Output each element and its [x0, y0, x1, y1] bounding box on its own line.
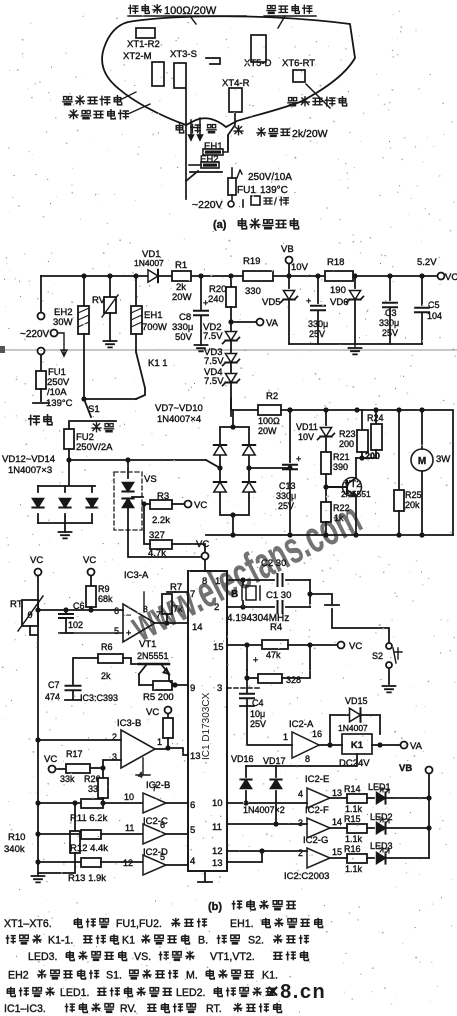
svg-text:RT: RT: [10, 599, 23, 610]
relay coil K1 DC24V: [342, 734, 372, 754]
legend line 5: [7, 987, 15, 997]
svg-text:25V: 25V: [382, 328, 398, 338]
svg-text:S2.: S2.: [248, 935, 264, 947]
wire colour label blue: [234, 126, 243, 135]
svg-text:×8.cn: ×8.cn: [267, 981, 326, 1003]
svg-text:3: 3: [298, 818, 303, 828]
wire: rail left drop to L terminal: [40, 276, 42, 312]
svg-text:VA: VA: [266, 318, 279, 329]
resistor R25 20: [398, 410, 400, 490]
svg-text:VS.: VS.: [134, 951, 151, 963]
motor M 3W: [411, 449, 433, 471]
svg-text:R19: R19: [243, 256, 260, 267]
diode VD14: [91, 486, 93, 523]
svg-text:C3: C3: [385, 308, 397, 318]
svg-text:11: 11: [125, 823, 134, 833]
svg-text:1N4007×2: 1N4007×2: [243, 805, 285, 815]
wire: motor block bottom rail: [206, 534, 453, 536]
svg-text:25V: 25V: [309, 329, 325, 339]
capacitor C4 10u 25V: [244, 675, 249, 680]
legend line 2: [6, 935, 16, 944]
svg-text:200: 200: [365, 451, 380, 461]
svg-text:3: 3: [217, 683, 222, 694]
wire: AC node to diode bus: [66, 457, 71, 462]
svg-text:XT1–XT6.: XT1–XT6.: [4, 918, 52, 930]
section (b) mid: rectifier, triac, motor drive: [2, 391, 453, 559]
svg-text:10: 10: [212, 798, 223, 809]
svg-text:C1 30: C1 30: [266, 590, 291, 601]
wire: pin5 input: [66, 632, 123, 634]
svg-text:K1: K1: [351, 740, 364, 751]
svg-text:RT.: RT.: [206, 1003, 222, 1015]
svg-text:474: 474: [45, 692, 60, 702]
svg-text:IC3-B: IC3-B: [117, 718, 141, 729]
svg-text:7: 7: [152, 783, 157, 793]
terminal VC above IC3-B: [165, 707, 172, 714]
capacitor C3 330u 25V: [389, 276, 391, 300]
wire: IC3-A output to pin14: [155, 622, 188, 624]
diode VD12: [37, 486, 39, 523]
wire: S1 pole: [84, 398, 136, 400]
svg-text:(b): (b): [208, 901, 222, 913]
svg-text:139°C: 139°C: [46, 398, 73, 409]
svg-text:190: 190: [330, 285, 346, 296]
svg-text:VC: VC: [146, 707, 159, 718]
IC IC1 D17300X: [188, 571, 227, 871]
svg-text:250V/10A: 250V/10A: [248, 172, 292, 183]
svg-text:(a): (a): [213, 219, 227, 231]
svg-text:1N4007×4: 1N4007×4: [157, 414, 201, 425]
svg-text:2k: 2k: [101, 671, 111, 681]
svg-text:5: 5: [114, 626, 119, 636]
svg-text:EH2: EH2: [200, 154, 218, 165]
section (b) control circuit : power input and rails: [0, 244, 457, 460]
section (a) kettle wiring diagram: [63, 5, 355, 231]
svg-text:VD16: VD16: [231, 754, 254, 764]
svg-text:6: 6: [114, 606, 119, 616]
svg-text:330: 330: [245, 286, 261, 297]
svg-text:XT6-RT: XT6-RT: [282, 58, 315, 69]
svg-text:EH1: EH1: [144, 310, 162, 321]
svg-text:K1-1.: K1-1.: [48, 935, 73, 947]
terminal VC above IC1: [202, 553, 209, 560]
wire yellow: [198, 118, 203, 140]
resistor R13 1.9k: [81, 858, 101, 867]
svg-text:1N4007×3: 1N4007×3: [8, 465, 52, 476]
svg-text:340k: 340k: [4, 844, 25, 855]
svg-text:10μ: 10μ: [250, 709, 265, 719]
svg-text:R21: R21: [333, 452, 350, 462]
svg-text:6: 6: [190, 800, 195, 811]
svg-text:VD17: VD17: [263, 756, 286, 766]
wire: motor block top rail: [281, 410, 453, 535]
svg-text:VC: VC: [349, 641, 362, 652]
wire: bridge top feed / bottom out: [232, 410, 234, 535]
svg-text:R13 1.9k: R13 1.9k: [68, 873, 106, 884]
bridge diode VD8: [243, 445, 255, 455]
svg-text:C13: C13: [279, 481, 296, 491]
svg-text:10V: 10V: [298, 432, 314, 442]
svg-text:100Ω/20W: 100Ω/20W: [164, 5, 217, 17]
svg-text:13: 13: [190, 751, 201, 762]
resistor R12 4.4k: [81, 830, 101, 839]
svg-text:R10: R10: [8, 832, 25, 843]
svg-text:RV.: RV.: [120, 1003, 137, 1015]
wire to FU2: [69, 421, 116, 429]
capacitor C13 330u 25V: [249, 467, 290, 469]
svg-text:10: 10: [124, 792, 134, 802]
svg-text:33k: 33k: [60, 774, 75, 784]
wire: diode cathode bus to ground: [38, 523, 92, 532]
terminal VC left 1: [35, 569, 42, 576]
svg-text:104: 104: [427, 311, 442, 321]
svg-text:250V/2A: 250V/2A: [76, 442, 113, 453]
wire: main +rail: [41, 275, 441, 277]
svg-text:R11 6.2k: R11 6.2k: [70, 813, 108, 824]
ground lower left: [37, 740, 39, 873]
triac VS: [114, 472, 142, 530]
svg-text:2N5551: 2N5551: [137, 651, 169, 661]
svg-text:~220V: ~220V: [20, 329, 50, 340]
label: resistor 100ohm/20W connection: [129, 5, 138, 13]
arrow 250V/10A pointer: [237, 170, 242, 178]
svg-text:M: M: [418, 456, 426, 467]
svg-text:10V: 10V: [291, 262, 309, 273]
svg-text:C7: C7: [48, 680, 60, 690]
svg-text:LED1: LED1: [368, 782, 391, 792]
label: display board connection: [267, 5, 276, 13]
capacitor C1: [227, 606, 274, 608]
scan artifact left edge: [0, 346, 5, 353]
svg-text:VT1,VT2.: VT1,VT2.: [210, 951, 255, 963]
wire EH1 right lead: [223, 135, 228, 152]
terminal VC (triac gate): [185, 501, 192, 508]
svg-text:25V: 25V: [250, 719, 266, 729]
svg-text:R14: R14: [344, 784, 361, 794]
svg-text:R17: R17: [66, 749, 83, 759]
svg-text:30W: 30W: [53, 317, 73, 328]
svg-text:IC3:C393: IC3:C393: [80, 693, 118, 703]
svg-text:IC2:C2003: IC2:C2003: [284, 871, 329, 882]
svg-text:K1: K1: [122, 935, 135, 947]
svg-text:IC2-A: IC2-A: [289, 719, 314, 730]
svg-text:B.: B.: [198, 935, 208, 947]
section (b) lower: MCU IC1, comparators, drivers: [4, 539, 339, 884]
svg-text:1N4007: 1N4007: [134, 258, 164, 268]
svg-text:68k: 68k: [98, 594, 113, 604]
connector clip: [206, 58, 220, 64]
svg-text:R12 4.4k: R12 4.4k: [70, 843, 108, 854]
fuse FU2 250V/2A: [64, 429, 74, 449]
svg-text:7.5V: 7.5V: [203, 331, 223, 342]
svg-text:XT5-D: XT5-D: [244, 58, 272, 69]
label: kettle handle connection: [63, 97, 72, 105]
svg-text:VB: VB: [399, 763, 412, 774]
fuse FU1 (a): [228, 178, 236, 195]
svg-text:R6: R6: [101, 642, 113, 652]
svg-text:VA: VA: [410, 741, 423, 752]
terminal XT1: [136, 28, 155, 38]
wire to 220V left terminal: [185, 181, 187, 199]
resistor R21 390: [321, 452, 331, 474]
svg-text:VS: VS: [144, 474, 157, 485]
terminal VA right: [401, 742, 408, 749]
svg-text:5: 5: [160, 852, 165, 862]
svg-text:7.5V: 7.5V: [204, 376, 224, 387]
resistor R22 1k: [325, 487, 327, 502]
svg-text:5.2V: 5.2V: [417, 257, 437, 268]
svg-text:~220V: ~220V: [192, 199, 223, 211]
svg-text:VD15: VD15: [345, 696, 368, 706]
svg-text:S1.: S1.: [106, 970, 122, 982]
terminal XT4: [229, 88, 242, 112]
svg-text:11: 11: [212, 822, 222, 833]
kettle base outline: [102, 16, 355, 127]
watermark www.elecfans.com: [122, 492, 369, 652]
svg-text:13: 13: [332, 788, 342, 798]
svg-text:VC: VC: [196, 539, 209, 550]
wire colour labels red black yellow: [176, 124, 183, 133]
svg-text:EH1.: EH1.: [230, 918, 254, 930]
capacitor C8 330u 50V: [200, 276, 202, 309]
svg-text:VC: VC: [445, 272, 457, 283]
svg-text:1.1k: 1.1k: [345, 834, 363, 844]
svg-text:1.1k: 1.1k: [345, 864, 363, 874]
svg-text:9: 9: [190, 683, 195, 694]
svg-text:K1 1: K1 1: [148, 358, 168, 369]
resistor R24 200: [375, 410, 377, 424]
svg-text:50V: 50V: [175, 332, 193, 343]
svg-text:VB: VB: [281, 244, 294, 255]
svg-text:+: +: [253, 655, 258, 665]
wire: VS bottom: [128, 530, 205, 557]
svg-text:VC: VC: [44, 754, 57, 765]
wire black: [189, 120, 194, 140]
svg-text:VD11: VD11: [296, 422, 318, 432]
resistor R26 33k: [102, 768, 104, 778]
terminal XT6: [293, 70, 305, 82]
resistor R11 6.2k: [81, 799, 103, 808]
svg-text:VC: VC: [194, 500, 207, 511]
wire: IC1 bottom stub: [198, 871, 212, 882]
svg-text:+: +: [306, 296, 311, 306]
svg-text:FU1: FU1: [237, 185, 256, 196]
svg-text:XT4-R: XT4-R: [222, 78, 250, 89]
thermostat lever: [186, 171, 222, 181]
svg-text:R2: R2: [266, 391, 278, 402]
svg-text:1.1k: 1.1k: [345, 804, 363, 814]
capacitor C5 104: [421, 276, 423, 305]
svg-text:R5 200: R5 200: [143, 692, 174, 703]
svg-text:8: 8: [305, 754, 310, 764]
svg-text:13: 13: [212, 858, 223, 869]
svg-text:1N4007: 1N4007: [338, 723, 368, 733]
earth yellow/green box: [251, 196, 260, 205]
svg-text:4: 4: [298, 789, 303, 799]
svg-text:VD7~VD10: VD7~VD10: [155, 403, 203, 414]
svg-text:200: 200: [339, 439, 354, 449]
svg-text:C5: C5: [428, 300, 440, 310]
terminal VA: [231, 321, 256, 323]
svg-text:IC3-A: IC3-A: [124, 570, 149, 581]
svg-text:390: 390: [333, 462, 348, 472]
wire: pin3 dashed stub: [227, 687, 262, 689]
svg-text:+: +: [296, 454, 301, 464]
bridge diode VD9: [214, 482, 226, 492]
label: resistor 2k/20W connection: [257, 128, 265, 136]
svg-text:XT1-R2: XT1-R2: [127, 39, 160, 50]
svg-text:R24: R24: [367, 413, 384, 423]
terminal: AC N: [51, 330, 58, 337]
svg-text:2: 2: [298, 848, 303, 858]
wire bus pin6 row: [35, 800, 40, 805]
svg-text:/10A: /10A: [47, 387, 67, 398]
wire VT1 collector: [169, 681, 175, 685]
svg-text:330μ: 330μ: [276, 491, 296, 501]
terminal XT2: [152, 62, 164, 86]
svg-text:6: 6: [160, 820, 165, 830]
svg-text:XT2-M: XT2-M: [123, 51, 152, 62]
svg-text:K1.: K1.: [262, 970, 278, 982]
svg-text:2k/20W: 2k/20W: [292, 128, 328, 140]
svg-text:VD12~VD14: VD12~VD14: [2, 454, 55, 465]
svg-text:R16: R16: [344, 844, 361, 854]
svg-text:IC2-E: IC2-E: [305, 774, 329, 785]
svg-text:R25: R25: [405, 490, 422, 500]
svg-text:4: 4: [190, 856, 195, 867]
svg-text:R15: R15: [344, 814, 361, 824]
section (b) right: relay, push-button, LED drivers: [227, 609, 433, 882]
capacitor C4 small: [246, 645, 248, 670]
svg-text:328: 328: [286, 675, 301, 685]
svg-text:VD5: VD5: [262, 297, 280, 308]
svg-text:R1: R1: [175, 260, 187, 271]
label water-out: [92, 423, 101, 432]
svg-text:IC1 D17303CX: IC1 D17303CX: [201, 692, 212, 760]
svg-text:2.2k: 2.2k: [152, 515, 170, 526]
wire: crystal common to S2: [332, 609, 389, 642]
svg-text:12: 12: [123, 858, 133, 868]
svg-text:330μ: 330μ: [379, 318, 399, 328]
resistor 328: [247, 670, 258, 678]
terminal: AC via fuse: [38, 348, 45, 355]
wire bus pin4 row: [35, 859, 40, 864]
svg-text:1: 1: [283, 732, 288, 742]
wire: pin2 input from RT divider: [38, 739, 121, 741]
svg-text:S1: S1: [88, 404, 100, 415]
svg-text:20k: 20k: [405, 500, 420, 510]
svg-text:+: +: [126, 628, 131, 638]
svg-text:15: 15: [213, 642, 224, 653]
wire: AC line to bridge: [69, 459, 206, 461]
svg-text:240: 240: [208, 294, 224, 305]
svg-text:LED3.: LED3.: [28, 951, 57, 963]
svg-text:XT3-S: XT3-S: [170, 49, 197, 60]
fuse FU1: [36, 371, 46, 389]
wire from XT3 to heater: [185, 89, 187, 180]
wire: bridge AC feed: [206, 460, 220, 468]
svg-text:VC: VC: [83, 555, 96, 566]
svg-text:47k: 47k: [266, 650, 281, 660]
bridge diode VD7: [214, 445, 226, 455]
svg-text:IC2-G: IC2-G: [303, 835, 328, 846]
svg-text:7.5V: 7.5V: [204, 356, 224, 367]
svg-text:EH1: EH1: [204, 141, 222, 152]
scan fold line: [0, 349, 457, 351]
wire: clamp bus: [246, 754, 357, 766]
svg-text:102: 102: [68, 620, 83, 630]
svg-text:20W: 20W: [258, 426, 277, 436]
svg-text:LED1.: LED1.: [60, 987, 89, 999]
svg-text:VC: VC: [30, 555, 43, 566]
svg-text:5: 5: [190, 825, 195, 836]
svg-text:IC2-F: IC2-F: [305, 805, 329, 816]
switch S1 blade: [84, 399, 91, 417]
svg-text:25V: 25V: [278, 501, 294, 511]
resistor pull-up on IC3-B output: [163, 718, 173, 738]
svg-text:FU1,FU2.: FU1,FU2.: [116, 918, 162, 930]
label: water outlet switch connection: [69, 110, 78, 119]
svg-text:EH2: EH2: [8, 970, 29, 982]
bridge diode VD10: [243, 482, 255, 492]
svg-text:16: 16: [312, 729, 322, 739]
svg-text:330μ: 330μ: [308, 319, 328, 329]
label keep-warm: [29, 415, 40, 424]
svg-text:M.: M.: [186, 970, 198, 982]
svg-text:IC2-B: IC2-B: [146, 780, 170, 791]
svg-text:1: 1: [157, 737, 162, 747]
switch S1 fixed contact: [33, 402, 49, 404]
svg-text:20W: 20W: [172, 292, 192, 303]
svg-text:15: 15: [332, 847, 342, 857]
wire: secondary ground bus: [289, 343, 422, 345]
svg-text:700W: 700W: [142, 322, 167, 333]
wire to pin3: [103, 760, 121, 768]
diode VD13: [64, 486, 66, 523]
svg-text:12: 12: [212, 846, 223, 857]
wire blue from XT4: [228, 112, 235, 150]
svg-text:3W: 3W: [436, 454, 450, 465]
svg-text:LED2.: LED2.: [176, 987, 205, 999]
wire pin13 stub: [227, 851, 262, 862]
svg-text:R18: R18: [327, 257, 344, 268]
svg-text:/: /: [274, 197, 277, 208]
terminal VC right: [338, 642, 345, 649]
wire bus pin5 row: [35, 831, 40, 836]
terminal XT5: [251, 35, 266, 62]
heater EH1 700W: [135, 276, 137, 306]
label: thermistor connection: [288, 98, 297, 106]
svg-text:S2: S2: [372, 651, 383, 661]
svg-text:14: 14: [332, 817, 342, 827]
resistor 4.7k: [150, 540, 172, 549]
captions and legend text: [4, 900, 323, 1015]
svg-text:R9: R9: [98, 584, 110, 594]
svg-text:DC24V: DC24V: [339, 758, 370, 769]
bridge rectifier VD7-VD10: [220, 427, 249, 515]
wire: IC3-B output to pin13: [155, 748, 188, 755]
terminal XT3: [174, 63, 186, 88]
terminal VC left 2: [88, 569, 95, 576]
svg-text:139°C: 139°C: [260, 185, 288, 196]
svg-text:R23: R23: [339, 429, 356, 439]
